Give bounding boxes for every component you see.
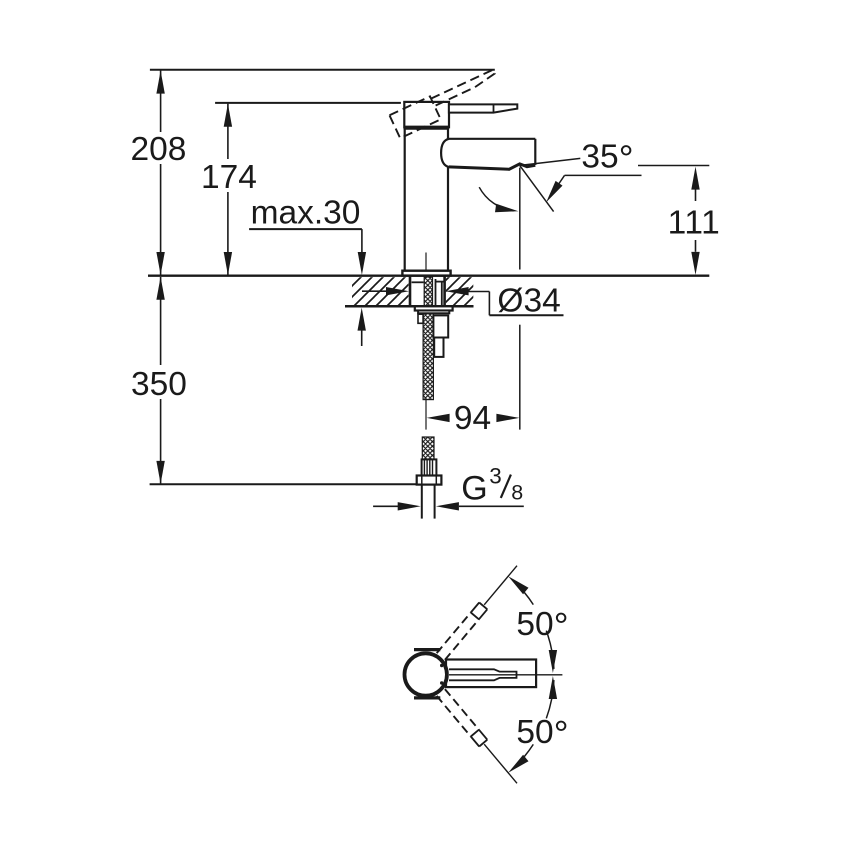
- 50 degree arc upper: [524, 592, 533, 604]
- faucet column: [404, 129, 406, 271]
- svg-text:3: 3: [489, 464, 502, 489]
- threaded shank through deck: [424, 277, 432, 313]
- dimension 174: [227, 104, 229, 159]
- faucet lever (horizontal position): [449, 104, 517, 112]
- deck hole edges: [409, 277, 412, 306]
- dimension 111: [691, 167, 699, 190]
- hose connector fittings: [433, 315, 448, 337]
- ribbed connector: [422, 459, 437, 475]
- small fitting left of hose: [418, 314, 423, 323]
- svg-text:50°: 50°: [516, 605, 568, 647]
- hex nut G3/8: [417, 476, 442, 485]
- supply pipe: [421, 485, 423, 519]
- 50 degree arc lower: [524, 744, 533, 756]
- top view: handle body: [446, 660, 536, 688]
- svg-text:Ø34: Ø34: [497, 283, 560, 320]
- svg-text:350: 350: [131, 366, 187, 403]
- deck bottom line: [345, 305, 474, 308]
- spout outlet vertical line: [519, 168, 521, 270]
- svg-text:8: 8: [511, 481, 523, 505]
- 35 pointer with arrow: [565, 174, 642, 176]
- 208 top reference line: [150, 69, 495, 71]
- braided hose upper: [423, 313, 433, 399]
- max.30 lower arrow: [358, 308, 366, 331]
- svg-text:208: 208: [131, 131, 187, 168]
- dashed lever ghost (raised position): [389, 67, 502, 138]
- svg-text:94: 94: [454, 400, 491, 437]
- deck top line: [148, 275, 709, 277]
- under-deck nut flange: [415, 306, 453, 310]
- dashed lever at +50 (upper): [437, 613, 471, 654]
- deck hatching: [352, 277, 409, 305]
- top view: mounting tabs: [414, 648, 440, 651]
- faucet cap (handle base): [404, 102, 449, 127]
- 350 bottom reference line: [150, 483, 416, 485]
- svg-text:50°: 50°: [516, 713, 568, 755]
- svg-text:111: 111: [668, 205, 721, 242]
- top view: lever inner outline: [449, 669, 517, 680]
- centerline above deck: [425, 253, 427, 271]
- svg-text:35°: 35°: [581, 137, 633, 179]
- 174 top reference line: [215, 102, 401, 104]
- dimension 94: [427, 414, 450, 422]
- top view: pin dots: [440, 664, 443, 667]
- svg-text:174: 174: [201, 159, 257, 196]
- top view: body circle: [405, 653, 447, 695]
- svg-text:max.30: max.30: [251, 195, 361, 232]
- braided hose lower: [422, 437, 434, 459]
- dimension 208: [160, 71, 162, 133]
- 35 leader from spout tip: [521, 158, 580, 165]
- 35 angle arc: [479, 187, 513, 211]
- svg-text:G: G: [461, 470, 487, 508]
- dimension 350: [160, 277, 162, 365]
- base plate (escutcheon): [402, 271, 450, 276]
- pipe diameter arrows: [373, 505, 398, 507]
- centerline below hose: [425, 400, 427, 430]
- dimension Ø34: [362, 290, 388, 292]
- 35 degree angled line: [520, 166, 554, 212]
- dashed lever at -50 (lower): [445, 689, 479, 730]
- spout: [441, 139, 449, 167]
- mounting nut details in hole: [412, 281, 424, 283]
- top view: centerline: [449, 674, 562, 676]
